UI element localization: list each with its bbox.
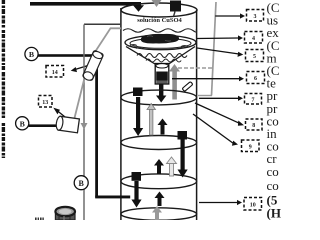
column right wall (196, 10, 198, 220)
bubble arrow U1 (158, 119, 168, 126)
leader to box 14 (75, 66, 88, 70)
svg-text:13: 13 (42, 100, 48, 106)
bubble arrow U3 (155, 192, 165, 199)
column left wall (120, 8, 122, 220)
leader to box 8 (195, 103, 240, 123)
callout box 7 (245, 94, 262, 105)
callout box 10 (244, 198, 262, 211)
leader to box 5 (197, 48, 239, 54)
callout box 4 (245, 32, 263, 44)
svg-text:5: 5 (253, 54, 256, 60)
particle S2 (178, 131, 188, 140)
svg-text:(H: (H (267, 206, 281, 221)
thick settling arrow below vial (159, 84, 163, 96)
callout box 3 (247, 10, 264, 22)
right margin text column (clipped) (267, 0, 281, 221)
gray riser line to box 3 (212, 2, 217, 96)
overflow tube top horizontal (84, 23, 121, 25)
callout box 8 (246, 119, 263, 130)
column top rim ellipse (121, 3, 197, 17)
feed inlet arrow (top thick line bending down into beaker) (30, 2, 141, 6)
tray ellipse A (121, 90, 197, 105)
funnel rim ellipse (125, 35, 196, 49)
tilted sample tube (82, 50, 104, 82)
svg-text:3: 3 (254, 14, 257, 20)
settling arrow from S2 (181, 140, 185, 170)
left margin rotated caption (dashed rule) (2, 0, 5, 158)
svg-text:14: 14 (52, 70, 58, 76)
bubble arrow G3 (167, 157, 177, 164)
svg-text:B: B (20, 119, 25, 128)
callout box 9 (242, 140, 260, 152)
gray spur at y95 (198, 95, 212, 97)
svg-text:10: 10 (250, 202, 256, 208)
leader to box 6 (172, 78, 239, 80)
pump wire vertical (95, 54, 98, 197)
pump wire bottom horizontal into column (95, 196, 130, 199)
callout box 14 (46, 66, 64, 78)
leader to box 10 (199, 202, 237, 204)
membrane dashed leader (178, 67, 214, 69)
particle S1 (133, 88, 143, 97)
particle S3 (132, 172, 142, 181)
horizontal collector cylinder (55, 116, 79, 133)
collection vial at cone tip (155, 64, 169, 85)
black probe at rim (170, 1, 181, 12)
drain tube diagonal (gray) (75, 28, 121, 118)
circled B1 (25, 47, 38, 60)
leader to box 3 (215, 15, 240, 17)
membrane gray arrow (169, 64, 180, 72)
dark sample in funnel (141, 34, 179, 44)
callout box 13 (39, 96, 53, 108)
svg-text:9: 9 (249, 144, 252, 150)
svg-text:B: B (29, 50, 34, 59)
svg-text:6: 6 (254, 76, 257, 82)
svg-text:solución CuSO4: solución CuSO4 (137, 17, 182, 24)
stir stick (white parallelogram) (182, 82, 193, 92)
gray inlet arrowhead at rim (152, 0, 162, 7)
funnel cone (126, 47, 158, 66)
svg-text:co: co (267, 178, 279, 193)
svg-text:4: 4 (252, 36, 255, 42)
svg-text:co: co (267, 164, 279, 179)
callout box 5 (246, 50, 264, 62)
bubble arrow G4 (152, 206, 162, 213)
graphite cylinder bottom left (55, 212, 75, 221)
svg-text:8: 8 (252, 123, 255, 129)
leader to box 13 (57, 111, 70, 122)
leader to box 4 (197, 37, 238, 40)
liquid surface wavy line (123, 29, 197, 33)
overflow tube vertical (gray) (83, 25, 85, 221)
bubble arrow G2 (147, 104, 156, 110)
svg-text:7: 7 (252, 97, 255, 103)
pump wire from B1: horizontal stub (38, 54, 98, 57)
tray ellipse D (121, 208, 197, 220)
callout box 6 (247, 72, 265, 84)
svg-text:B: B (79, 179, 85, 188)
cone liquid waves (137, 54, 187, 58)
leader to box 9 (193, 114, 234, 144)
settling arrow from S1 (136, 97, 140, 128)
circled B2 (16, 117, 29, 130)
tray ellipse B (121, 136, 197, 150)
wire from B2 to collector (29, 124, 60, 127)
settling arrow from S3 (134, 181, 138, 200)
tiny marks left of cylinder (35, 218, 44, 221)
tray ellipse C (121, 174, 197, 189)
circled B3 (74, 176, 88, 190)
tube arrowhead (81, 123, 88, 130)
leader to box 7 (199, 97, 238, 99)
bubble arrow U2 (154, 159, 164, 166)
